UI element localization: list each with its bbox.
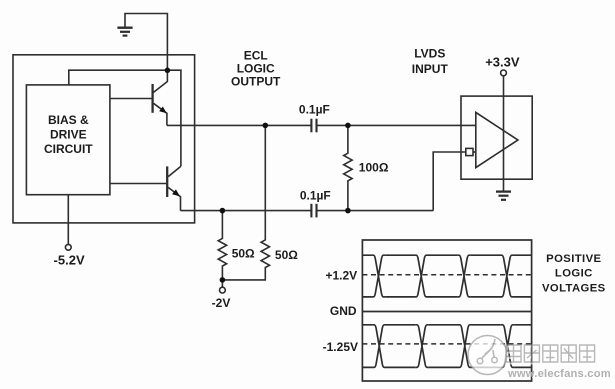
svg-text:INPUT: INPUT: [412, 62, 449, 76]
svg-text:www.elecfans.com: www.elecfans.com: [507, 368, 611, 380]
svg-text:+3.3V: +3.3V: [485, 55, 520, 70]
svg-text:0.1µF: 0.1µF: [300, 188, 331, 202]
svg-text:0.1µF: 0.1µF: [299, 103, 330, 117]
svg-text:50Ω: 50Ω: [275, 248, 298, 262]
svg-text:VOLTAGES: VOLTAGES: [542, 282, 606, 294]
svg-text:LOGIC: LOGIC: [237, 62, 275, 76]
svg-text:GND: GND: [330, 304, 357, 318]
svg-text:100Ω: 100Ω: [359, 161, 389, 175]
svg-text:50Ω: 50Ω: [232, 247, 255, 261]
svg-text:+1.2V: +1.2V: [325, 268, 357, 282]
svg-text:-2V: -2V: [212, 296, 231, 310]
svg-text:-1.25V: -1.25V: [323, 340, 358, 354]
svg-text:OUTPUT: OUTPUT: [231, 75, 281, 89]
svg-text:POSITIVE: POSITIVE: [546, 253, 601, 265]
svg-text:LOGIC: LOGIC: [555, 268, 593, 280]
svg-text:BIAS &: BIAS &: [48, 113, 89, 127]
svg-text:ECL: ECL: [244, 49, 268, 63]
svg-text:LVDS: LVDS: [414, 47, 445, 61]
svg-text:DRIVE: DRIVE: [50, 127, 87, 141]
svg-text:CIRCUIT: CIRCUIT: [44, 142, 93, 156]
svg-text:-5.2V: -5.2V: [54, 253, 85, 268]
